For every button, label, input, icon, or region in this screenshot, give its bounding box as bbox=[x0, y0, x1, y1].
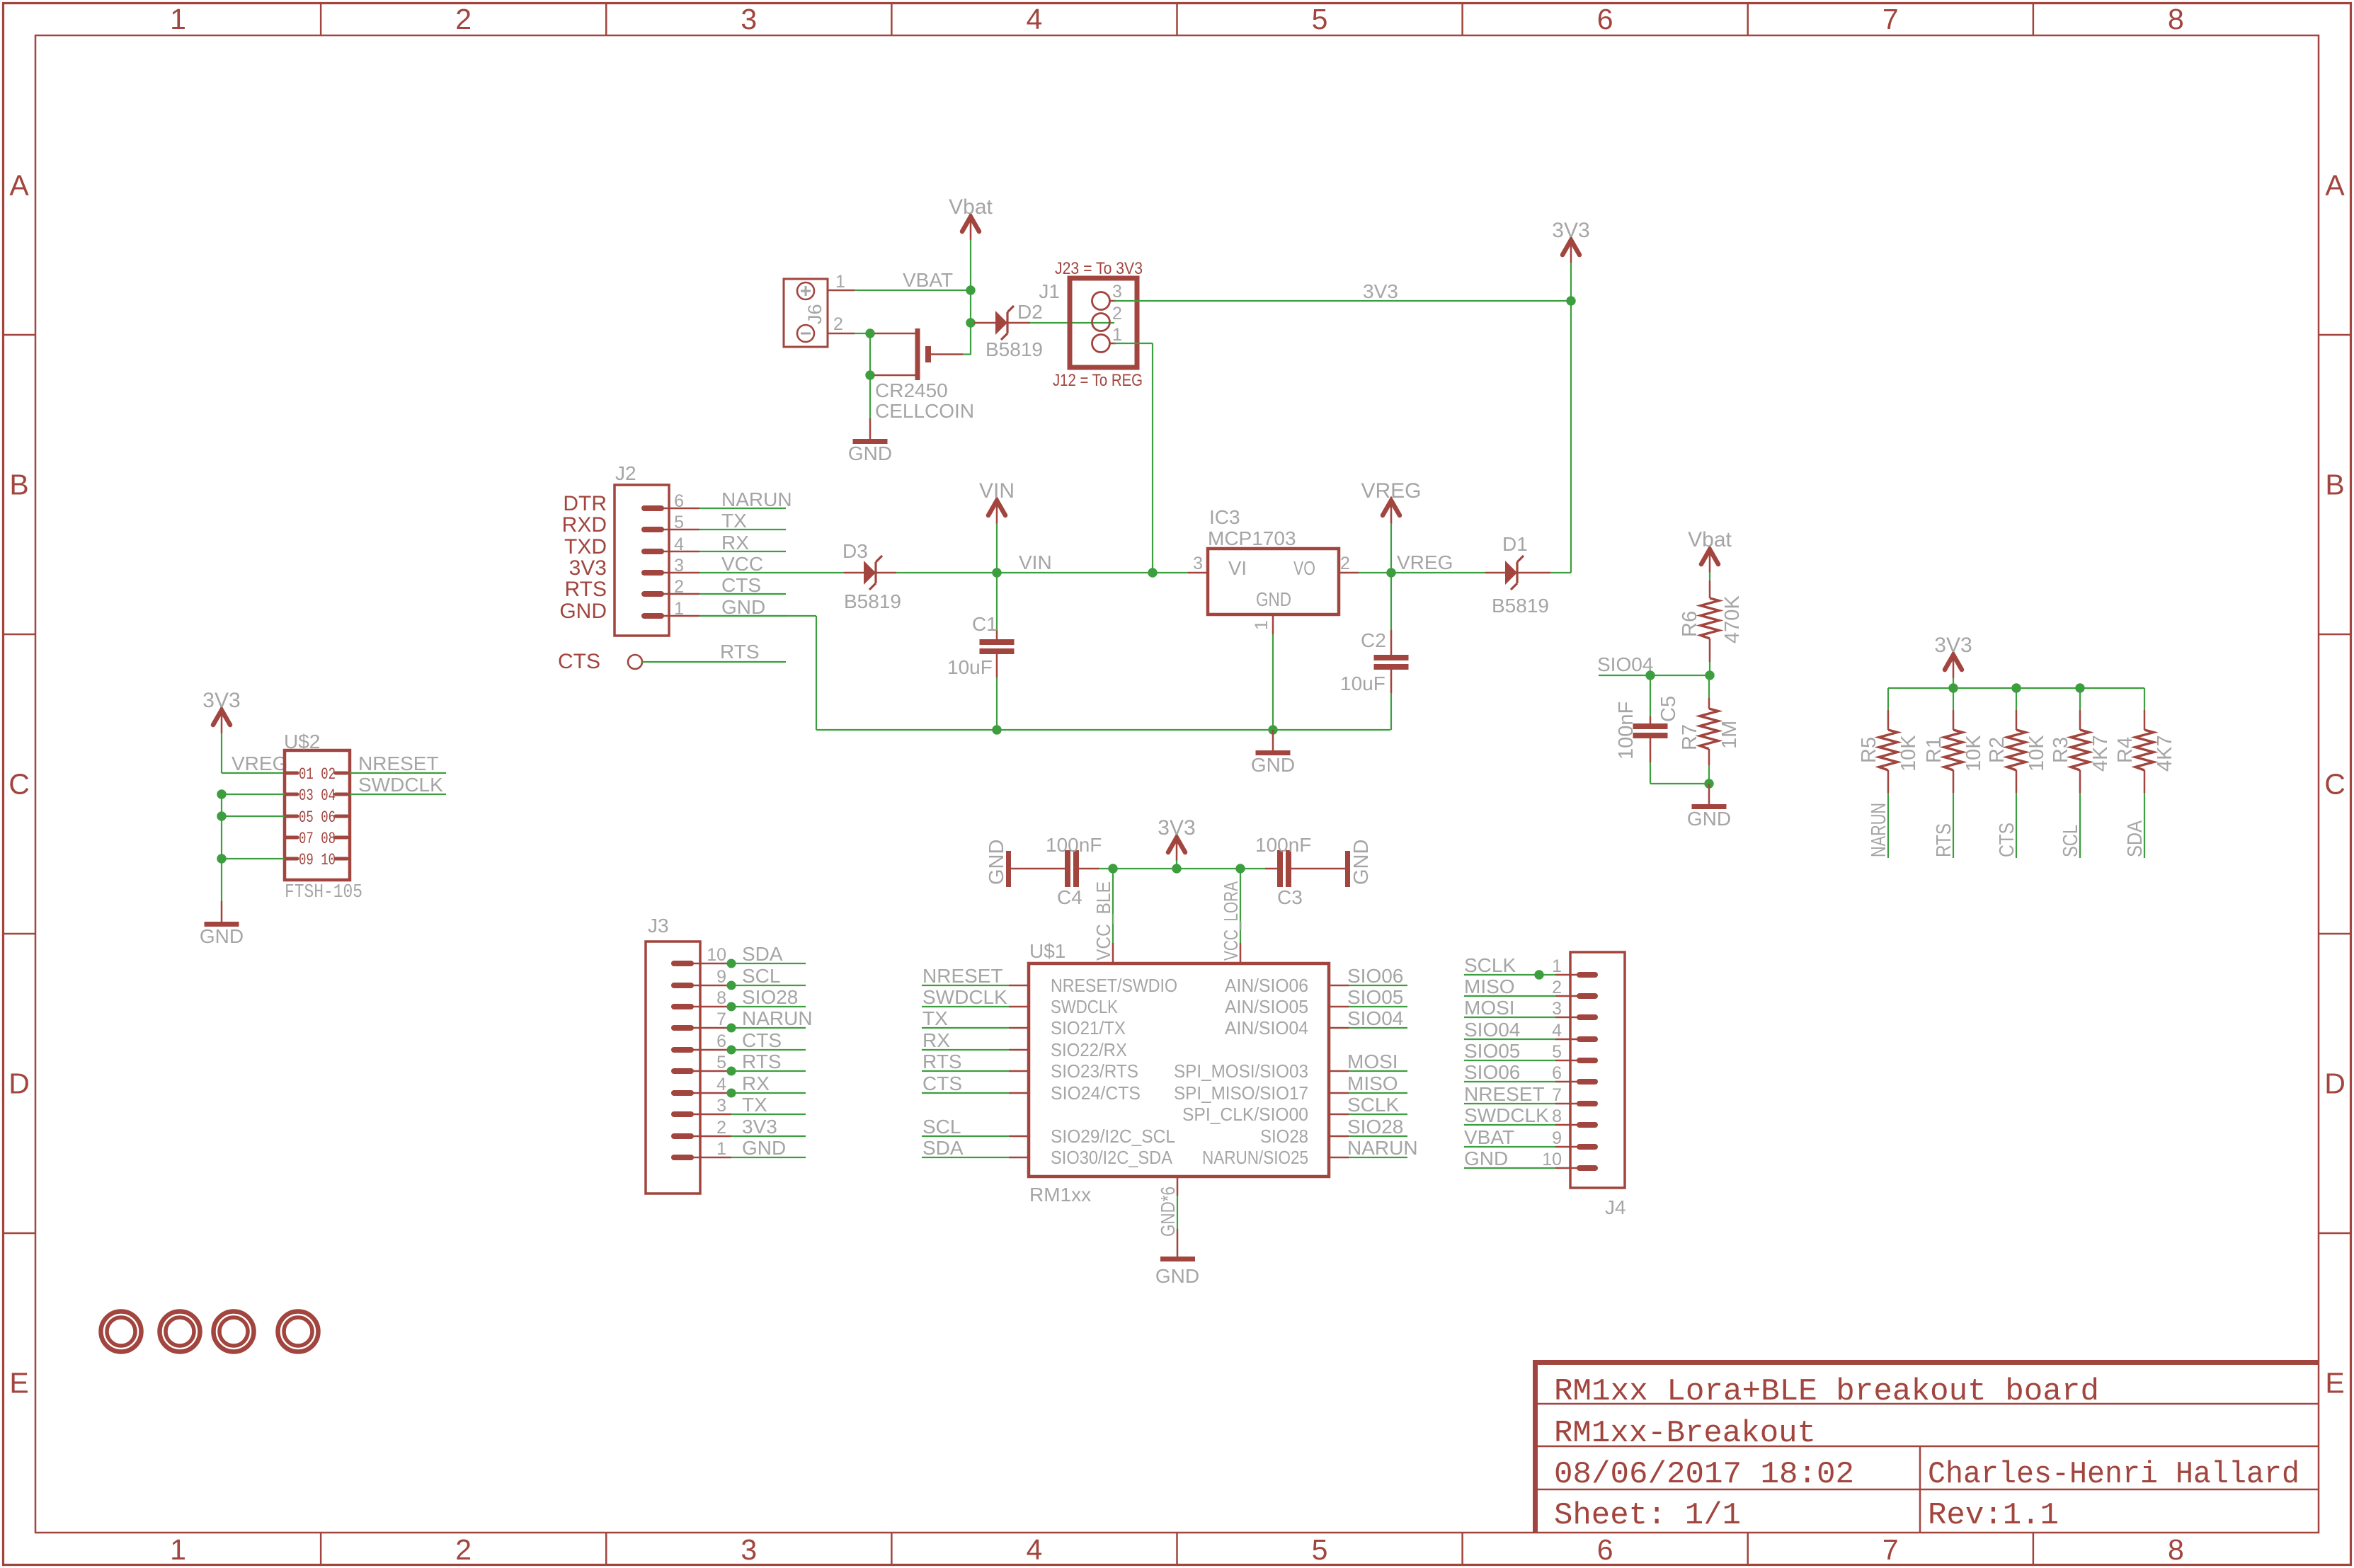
J4 pin 8 lead bbox=[1555, 1124, 1579, 1126]
svg-text:1: 1 bbox=[1252, 620, 1272, 630]
svg-text:VI: VI bbox=[1228, 557, 1247, 579]
svg-text:CTS: CTS bbox=[1996, 823, 2018, 857]
wire net MISO from U$1 right bbox=[1349, 1092, 1407, 1094]
svg-text:B5819: B5819 bbox=[844, 590, 901, 612]
svg-text:J4: J4 bbox=[1605, 1196, 1626, 1218]
wire VCC from J2 pin3 to D3 bbox=[699, 572, 844, 573]
power symbol 3V3 (top right) bbox=[1552, 219, 1589, 263]
svg-text:1: 1 bbox=[170, 3, 186, 35]
svg-text:SCLK: SCLK bbox=[1347, 1094, 1399, 1116]
svg-text:SWDCLK: SWDCLK bbox=[1051, 996, 1119, 1017]
wire net MISO to J4 pin 2 bbox=[1464, 995, 1555, 997]
svg-text:100nF: 100nF bbox=[1255, 834, 1311, 856]
svg-text:TX: TX bbox=[742, 1094, 767, 1116]
U$1 right pin lead (SCLK) bbox=[1329, 1114, 1349, 1116]
frame row labels bbox=[8, 169, 2346, 1400]
J4 pin 2 lead bbox=[1555, 995, 1579, 997]
wire net SCL to U$1 left bbox=[922, 1135, 1009, 1137]
J3 pin 8 wire dot bbox=[727, 1002, 736, 1012]
svg-text:6: 6 bbox=[674, 491, 684, 511]
junction VCC_LORA bbox=[1235, 864, 1245, 873]
wire net SCLK from U$1 right bbox=[1349, 1114, 1407, 1115]
connector J6 (battery terminal) bbox=[784, 279, 828, 347]
svg-text:SDA: SDA bbox=[922, 1137, 964, 1159]
wire to U$2 pin 05 bbox=[222, 816, 285, 817]
svg-text:SIO24/CTS: SIO24/CTS bbox=[1051, 1082, 1141, 1104]
svg-text:RX: RX bbox=[742, 1072, 770, 1094]
wire net SIO05 from U$1 right bbox=[1349, 1006, 1407, 1007]
svg-text:RM1xx-Breakout: RM1xx-Breakout bbox=[1554, 1416, 1816, 1451]
svg-text:R5: R5 bbox=[1858, 737, 1880, 763]
svg-text:SDA: SDA bbox=[2124, 820, 2147, 857]
J4 pin 6 lead bbox=[1555, 1081, 1579, 1083]
U$1 right pin lead (NARUN) bbox=[1329, 1157, 1349, 1159]
J3 pin 2 lead bbox=[692, 1135, 731, 1138]
svg-text:03 04: 03 04 bbox=[299, 786, 336, 805]
wire VBAT from J6 pin1 to Vbat node bbox=[855, 290, 971, 291]
junction VBAT node bbox=[966, 285, 975, 294]
svg-text:J23 = To 3V3: J23 = To 3V3 bbox=[1055, 259, 1143, 278]
U$1 left pin lead (TX) bbox=[1009, 1027, 1029, 1029]
svg-text:2: 2 bbox=[674, 577, 684, 597]
svg-text:SIO06: SIO06 bbox=[1464, 1061, 1520, 1083]
U$1 left pin lead (RTS) bbox=[1009, 1070, 1029, 1072]
wire net RTS from J3 pin 5 bbox=[731, 1070, 806, 1072]
svg-text:5: 5 bbox=[1312, 1533, 1328, 1566]
wire J1 pin1 out bbox=[1114, 343, 1153, 344]
voltage regulator IC3 MCP1703 bbox=[1208, 549, 1339, 614]
svg-text:TXD: TXD bbox=[564, 535, 607, 559]
IC3 pin 1 stub bbox=[1272, 614, 1274, 634]
svg-text:B: B bbox=[2325, 469, 2344, 501]
svg-text:J12 = To REG: J12 = To REG bbox=[1053, 371, 1143, 390]
svg-text:3: 3 bbox=[1112, 282, 1122, 302]
svg-text:NRESET/SWDIO: NRESET/SWDIO bbox=[1051, 975, 1177, 996]
wire D3 cathode to VIN node bbox=[896, 572, 997, 573]
ground symbol under IC3 bbox=[1251, 730, 1295, 776]
frame column ticks bbox=[321, 4, 2033, 1564]
svg-text:3: 3 bbox=[741, 1533, 757, 1566]
U$1 left pin lead (NRESET) bbox=[1009, 985, 1029, 987]
J3 pin 7 lead bbox=[692, 1027, 731, 1029]
svg-text:2: 2 bbox=[833, 314, 843, 334]
wire net SIO04 to J4 pin 4 bbox=[1464, 1038, 1555, 1040]
diode D3 B5819 bbox=[844, 556, 896, 590]
svg-text:NRESET: NRESET bbox=[358, 752, 439, 774]
junction VIN node bbox=[992, 568, 1001, 577]
svg-text:TX: TX bbox=[721, 510, 747, 532]
svg-text:VREG: VREG bbox=[1361, 479, 1421, 503]
svg-text:3: 3 bbox=[716, 1096, 726, 1116]
svg-text:5: 5 bbox=[1312, 3, 1328, 35]
svg-text:SPI_CLK/SIO00: SPI_CLK/SIO00 bbox=[1182, 1104, 1308, 1125]
wire VREG arrow stem to node bbox=[1390, 523, 1392, 573]
svg-text:GND: GND bbox=[1155, 1265, 1199, 1287]
svg-text:B5819: B5819 bbox=[985, 338, 1043, 360]
junction bank rail at R3 bbox=[2075, 683, 2084, 692]
svg-text:SCL: SCL bbox=[2059, 825, 2082, 857]
svg-text:8: 8 bbox=[2168, 3, 2184, 35]
junction bank rail at R2 bbox=[2011, 683, 2021, 692]
wire 3V3 stem to rail bbox=[1176, 860, 1177, 869]
svg-text:5: 5 bbox=[1552, 1042, 1562, 1062]
svg-text:NARUN: NARUN bbox=[721, 488, 792, 510]
diode D1 B5819 bbox=[1485, 556, 1550, 590]
svg-text:J3: J3 bbox=[648, 915, 669, 937]
wire net SCL below R3 bbox=[2079, 793, 2081, 858]
svg-text:IC3: IC3 bbox=[1209, 506, 1240, 528]
svg-text:C2: C2 bbox=[1361, 629, 1386, 651]
svg-text:5: 5 bbox=[674, 513, 684, 532]
power symbol VREG bbox=[1361, 479, 1421, 524]
svg-text:VCC: VCC bbox=[721, 553, 763, 575]
U$1 right pin lead (MOSI) bbox=[1329, 1070, 1349, 1072]
resistor R4 4K7 bbox=[2135, 688, 2154, 793]
capacitor C5 100nF bbox=[1633, 675, 1668, 784]
svg-text:NRESET: NRESET bbox=[1464, 1083, 1545, 1105]
J4 pin 3 lead bbox=[1555, 1017, 1579, 1019]
svg-text:GND: GND bbox=[721, 596, 765, 618]
svg-text:09 10: 09 10 bbox=[299, 851, 336, 869]
J3 pin 5 lead bbox=[692, 1070, 731, 1072]
svg-text:VIN: VIN bbox=[979, 479, 1015, 503]
svg-text:05 06: 05 06 bbox=[299, 808, 336, 827]
resistor R3 4K7 bbox=[2071, 688, 2089, 793]
J2 pin 6 lead (DTR) bbox=[661, 508, 699, 510]
power symbol 3V3 (U$2) bbox=[202, 689, 240, 733]
capacitor C2 10uF bbox=[1374, 573, 1409, 730]
J2 pin 1 lead (GND) bbox=[661, 615, 699, 617]
svg-text:MISO: MISO bbox=[1464, 975, 1515, 997]
J4 pin 9 lead bbox=[1555, 1146, 1579, 1148]
svg-text:9: 9 bbox=[1552, 1128, 1562, 1148]
svg-text:SIO21/TX: SIO21/TX bbox=[1051, 1017, 1126, 1038]
junction 3V3 / top rail bbox=[1172, 864, 1181, 873]
diode D2 B5819 bbox=[974, 306, 1030, 340]
svg-text:VREG: VREG bbox=[1397, 551, 1453, 573]
svg-text:C: C bbox=[8, 768, 30, 801]
svg-text:10: 10 bbox=[707, 945, 726, 965]
svg-text:SIO04: SIO04 bbox=[1597, 653, 1653, 675]
wire net CTS from J2 pin 2 bbox=[699, 593, 786, 595]
wire net SWDCLK to J4 pin 8 bbox=[1464, 1124, 1555, 1126]
svg-text:Rev:1.1: Rev:1.1 bbox=[1928, 1498, 2059, 1533]
junction bank rail at R1 bbox=[1948, 683, 1958, 692]
svg-text:A: A bbox=[2325, 169, 2345, 202]
wire D1 cathode to 3V3 vertical bbox=[1550, 572, 1571, 573]
svg-text:08/06/2017 18:02: 08/06/2017 18:02 bbox=[1554, 1457, 1854, 1492]
svg-text:2: 2 bbox=[716, 1118, 726, 1138]
svg-text:SIO29/I2C_SCL: SIO29/I2C_SCL bbox=[1051, 1126, 1175, 1147]
IC3 pin 3 stub bbox=[1188, 572, 1208, 574]
svg-text:R4: R4 bbox=[2114, 737, 2137, 763]
wire net NARUN below R5 bbox=[1887, 793, 1889, 858]
svg-text:CTS: CTS bbox=[721, 574, 761, 596]
junction C1 / ground rail bbox=[992, 725, 1001, 734]
svg-text:RX: RX bbox=[922, 1029, 950, 1051]
svg-text:MOSI: MOSI bbox=[1347, 1051, 1398, 1072]
resistor R6 470K bbox=[1701, 580, 1719, 662]
svg-text:RXD: RXD bbox=[562, 513, 607, 537]
J4 pin 10 lead bbox=[1555, 1167, 1579, 1169]
capacitor C4 100nF bbox=[1011, 850, 1099, 887]
wire battery short plate to Vbat vertical bbox=[963, 353, 971, 355]
svg-text:GND: GND bbox=[559, 600, 607, 623]
wire Vbat vertical bbox=[970, 239, 971, 355]
svg-text:10K: 10K bbox=[1962, 735, 1985, 772]
ground symbol right of C3 (rotated) bbox=[1348, 840, 1373, 887]
J2 pin 4 lead (TXD) bbox=[661, 551, 699, 553]
svg-text:6: 6 bbox=[716, 1031, 726, 1051]
wire NRESET from U$2 pin02 bbox=[350, 772, 446, 774]
svg-text:R3: R3 bbox=[2050, 737, 2072, 763]
resistor R2 10K bbox=[2007, 688, 2026, 793]
svg-text:GND: GND bbox=[1687, 808, 1731, 830]
svg-text:C4: C4 bbox=[1057, 886, 1082, 908]
svg-text:VCC_LORA: VCC_LORA bbox=[1220, 881, 1242, 961]
svg-text:B5819: B5819 bbox=[1492, 595, 1549, 617]
svg-text:2: 2 bbox=[1340, 554, 1350, 573]
svg-text:3V3: 3V3 bbox=[1363, 280, 1398, 302]
wire net SIO28 from J3 pin 8 bbox=[731, 1006, 806, 1007]
U$1 left pin lead (SCL) bbox=[1009, 1135, 1029, 1138]
svg-text:A: A bbox=[9, 169, 29, 202]
svg-text:CELLCOIN: CELLCOIN bbox=[875, 400, 974, 422]
U$1 right pin lead (SIO28) bbox=[1329, 1135, 1349, 1138]
svg-text:10K: 10K bbox=[1897, 735, 1920, 772]
junction VCC_BLE bbox=[1108, 864, 1117, 873]
wire net SCLK to J4 pin 1 bbox=[1464, 974, 1555, 975]
svg-text:4: 4 bbox=[1552, 1021, 1562, 1041]
wire net CTS below R2 bbox=[2016, 793, 2017, 858]
J4 pin 5 lead bbox=[1555, 1060, 1579, 1062]
ground symbol left of C4 (rotated) bbox=[985, 840, 1009, 887]
U$1 left pin lead (SWDCLK) bbox=[1009, 1006, 1029, 1008]
svg-text:C5: C5 bbox=[1657, 696, 1680, 722]
svg-text:VBAT: VBAT bbox=[1464, 1126, 1514, 1148]
svg-text:1: 1 bbox=[1112, 325, 1122, 345]
svg-text:U$2: U$2 bbox=[284, 731, 320, 752]
junction U$2 pin09 bbox=[217, 854, 226, 863]
svg-text:SIO30/I2C_SDA: SIO30/I2C_SDA bbox=[1051, 1147, 1173, 1168]
svg-text:3: 3 bbox=[741, 3, 757, 35]
J3 pin 5 wire dot bbox=[727, 1067, 736, 1076]
wire 3V3 top rail (C4 to C3) bbox=[1097, 868, 1265, 869]
wire net SIO04 from U$1 right bbox=[1349, 1027, 1407, 1029]
svg-text:3V3: 3V3 bbox=[202, 689, 240, 712]
svg-text:B: B bbox=[9, 469, 28, 501]
svg-text:SPI_MISO/SIO17: SPI_MISO/SIO17 bbox=[1174, 1082, 1308, 1104]
svg-text:SIO28: SIO28 bbox=[1260, 1126, 1308, 1147]
svg-text:E: E bbox=[9, 1367, 28, 1400]
svg-text:2: 2 bbox=[455, 3, 472, 35]
wire net RTS below R1 bbox=[1953, 793, 1954, 858]
svg-text:GND: GND bbox=[1350, 840, 1373, 885]
svg-text:Vbat: Vbat bbox=[949, 195, 993, 219]
J2 pin 3 lead (3V3) bbox=[661, 572, 699, 574]
svg-text:NARUN: NARUN bbox=[742, 1007, 813, 1029]
svg-text:Charles-Henri Hallard: Charles-Henri Hallard bbox=[1928, 1457, 2299, 1492]
svg-text:D: D bbox=[8, 1068, 30, 1100]
junction battery minus node bbox=[865, 370, 874, 379]
wire Vbat stem to R6 bbox=[1709, 572, 1710, 580]
svg-text:5: 5 bbox=[716, 1053, 726, 1072]
svg-text:MOSI: MOSI bbox=[1464, 997, 1515, 1019]
svg-text:R6: R6 bbox=[1679, 611, 1701, 637]
junction R7 / C5 / GND bbox=[1704, 779, 1713, 788]
svg-text:3V3: 3V3 bbox=[1934, 634, 1972, 657]
svg-text:4: 4 bbox=[674, 534, 684, 554]
U$1 right pin lead (SIO06) bbox=[1329, 985, 1349, 987]
wire net TX from J3 pin 3 bbox=[731, 1114, 806, 1115]
U$1 left pin lead (SDA) bbox=[1009, 1157, 1029, 1159]
power symbol 3V3 (resistor bank) bbox=[1934, 634, 1972, 678]
svg-text:10: 10 bbox=[1542, 1150, 1562, 1169]
J3 pin 4 wire dot bbox=[727, 1089, 736, 1098]
svg-text:GND: GND bbox=[985, 840, 1008, 885]
svg-text:C: C bbox=[2324, 768, 2346, 801]
J3 pin 10 lead bbox=[692, 963, 731, 965]
svg-text:1: 1 bbox=[716, 1139, 726, 1159]
wire GND vertical to ground rail bbox=[816, 616, 817, 730]
wire 3V3 vertical to D1 bbox=[1570, 263, 1572, 573]
junction battery plus node bbox=[865, 328, 874, 338]
wire net NARUN from J2 pin 6 bbox=[699, 508, 786, 509]
wire GND from J2 pin1 to down corner bbox=[699, 615, 816, 617]
U$1 right pin lead (SIO05) bbox=[1329, 1006, 1349, 1008]
wire D2 cathode to J1 pin2 bbox=[1030, 322, 1114, 324]
svg-text:4: 4 bbox=[1027, 1533, 1043, 1566]
svg-text:NARUN: NARUN bbox=[1868, 803, 1890, 857]
svg-text:RM1xx Lora+BLE breakout board: RM1xx Lora+BLE breakout board bbox=[1554, 1374, 2099, 1409]
svg-text:1: 1 bbox=[1552, 956, 1562, 976]
wire to U$2 pin 03 bbox=[222, 794, 285, 795]
wire net CTS to U$1 left bbox=[922, 1092, 1009, 1094]
junction VREG node bbox=[1386, 568, 1395, 577]
svg-text:1: 1 bbox=[170, 1533, 186, 1566]
svg-text:SCL: SCL bbox=[742, 965, 780, 987]
wire net NARUN from U$1 right bbox=[1349, 1157, 1407, 1158]
wire battery left vertical bbox=[869, 333, 871, 418]
svg-text:D: D bbox=[2324, 1068, 2346, 1100]
svg-text:100nF: 100nF bbox=[1615, 702, 1638, 760]
svg-text:SIO28: SIO28 bbox=[1347, 1116, 1403, 1138]
svg-text:SWDCLK: SWDCLK bbox=[358, 774, 443, 796]
wire 3V3 stem to bank rail bbox=[1953, 677, 1954, 688]
power symbol VIN bbox=[979, 479, 1015, 524]
wire J1 pin3 to 3V3 node bbox=[1114, 300, 1571, 302]
power symbol Vbat (divider) bbox=[1688, 528, 1732, 573]
svg-text:4: 4 bbox=[716, 1075, 726, 1094]
svg-text:R2: R2 bbox=[1986, 737, 2009, 763]
svg-text:SIO06: SIO06 bbox=[1347, 965, 1403, 987]
svg-text:C3: C3 bbox=[1277, 886, 1303, 908]
svg-text:CTS: CTS bbox=[742, 1029, 782, 1051]
wire net MOSI to J4 pin 3 bbox=[1464, 1017, 1555, 1018]
U$1 left pin lead (CTS) bbox=[1009, 1092, 1029, 1094]
J3 pin 9 lead bbox=[692, 985, 731, 987]
capacitor C1 10uF bbox=[980, 573, 1015, 730]
svg-text:470K: 470K bbox=[1721, 595, 1744, 643]
svg-text:07 08: 07 08 bbox=[299, 830, 336, 848]
wire net NRESET to U$1 left bbox=[922, 985, 1009, 986]
svg-text:2: 2 bbox=[455, 1533, 472, 1566]
svg-text:SIO04: SIO04 bbox=[1464, 1019, 1520, 1041]
svg-text:7: 7 bbox=[1882, 3, 1899, 35]
svg-text:SIO22/RX: SIO22/RX bbox=[1051, 1039, 1127, 1060]
wire GND*6 down bbox=[1177, 1196, 1178, 1229]
wire net SDA below R4 bbox=[2144, 793, 2145, 858]
wire net GND from J3 pin 1 bbox=[731, 1157, 806, 1158]
svg-text:SWDCLK: SWDCLK bbox=[1464, 1104, 1549, 1126]
svg-text:6: 6 bbox=[1597, 1533, 1613, 1566]
IC3 pin 2 stub bbox=[1339, 572, 1359, 574]
wire J1 pin1 down to VIN rail bbox=[1152, 343, 1153, 573]
svg-text:DTR: DTR bbox=[563, 492, 607, 515]
svg-text:MISO: MISO bbox=[1347, 1072, 1398, 1094]
wire net GND from J2 pin 1 bbox=[699, 615, 786, 617]
svg-text:VREG: VREG bbox=[232, 752, 287, 774]
svg-text:R7: R7 bbox=[1679, 724, 1701, 750]
connector J4 (10-pin right) bbox=[1570, 952, 1625, 1188]
svg-text:RTS: RTS bbox=[922, 1051, 962, 1072]
svg-text:Sheet: 1/1: Sheet: 1/1 bbox=[1554, 1498, 1741, 1533]
svg-text:9: 9 bbox=[716, 967, 726, 987]
svg-text:VCC_BLE: VCC_BLE bbox=[1092, 881, 1114, 961]
power symbol 3V3 (U$1 top) bbox=[1158, 816, 1195, 861]
connector J3 (10-pin) bbox=[646, 942, 700, 1194]
wire net SCL from J3 pin 9 bbox=[731, 985, 806, 986]
J3 pin 7 wire dot bbox=[727, 1024, 736, 1033]
svg-text:AIN/SIO04: AIN/SIO04 bbox=[1225, 1017, 1308, 1038]
svg-text:1: 1 bbox=[674, 599, 684, 619]
fiducial marks (4 circles) bbox=[101, 1312, 319, 1352]
svg-text:GND: GND bbox=[848, 442, 892, 464]
svg-text:SPI_MOSI/SIO03: SPI_MOSI/SIO03 bbox=[1174, 1060, 1308, 1082]
wire net SIO04 bbox=[1599, 675, 1710, 676]
wire to U$2 pin 09 bbox=[222, 858, 285, 859]
wire IC3 GND pin down bbox=[1272, 634, 1274, 730]
U$1 pin GND*6 bbox=[1157, 1177, 1179, 1237]
J6 pin 2 lead bbox=[828, 333, 855, 335]
svg-text:10uF: 10uF bbox=[1340, 673, 1385, 694]
wire IC3 VO to VREG node bbox=[1359, 572, 1391, 573]
svg-text:6: 6 bbox=[1552, 1063, 1562, 1083]
wire net CTS from J3 pin 6 bbox=[731, 1049, 806, 1051]
svg-text:CTS: CTS bbox=[922, 1072, 962, 1094]
svg-text:AIN/SIO05: AIN/SIO05 bbox=[1225, 996, 1308, 1017]
header U$2 FTSH-105 bbox=[285, 750, 350, 880]
svg-text:3: 3 bbox=[674, 556, 684, 576]
svg-text:4K7: 4K7 bbox=[2154, 735, 2176, 772]
wire net RX from J3 pin 4 bbox=[731, 1092, 806, 1094]
svg-text:4: 4 bbox=[1027, 3, 1043, 35]
module U$1 RM1xx bbox=[1029, 963, 1329, 1177]
wire net SIO06 from U$1 right bbox=[1349, 985, 1407, 986]
svg-text:3V3: 3V3 bbox=[1158, 816, 1195, 840]
svg-text:U$1: U$1 bbox=[1029, 940, 1065, 962]
J4 pin 4 lead bbox=[1555, 1038, 1579, 1041]
svg-text:SIO23/RTS: SIO23/RTS bbox=[1051, 1060, 1138, 1082]
J4 pin 1 lead bbox=[1555, 974, 1579, 976]
wire net NARUN from J3 pin 7 bbox=[731, 1027, 806, 1029]
wire net RTS to U$1 left bbox=[922, 1070, 1009, 1072]
wire net TX to U$1 left bbox=[922, 1027, 1009, 1029]
wire net 3V3 from J3 pin 2 bbox=[731, 1135, 806, 1137]
svg-text:3: 3 bbox=[1193, 554, 1203, 573]
U$1 pin VCC_BLE bbox=[1092, 869, 1114, 963]
J3 pin 1 lead bbox=[692, 1157, 731, 1159]
